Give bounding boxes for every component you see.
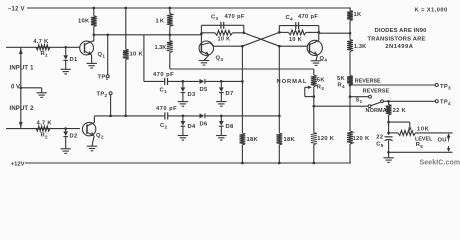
wire Q4 collector lead (317, 39, 320, 42)
node input2 arrow (19, 122, 23, 128)
resistor R5 10K (398, 130, 416, 135)
node K=X1000 note (415, 8, 448, 14)
svg-text:TP1: TP1 (98, 74, 109, 81)
wire 10K-2 lower (125, 59, 127, 116)
svg-text:TRANSISTORS ARE: TRANSISTORS ARE (368, 37, 426, 43)
transistor Q4 (307, 40, 322, 55)
svg-text:120 K: 120 K (317, 136, 334, 142)
wire upper chain mid2 (205, 80, 242, 82)
wire column1 (241, 46, 243, 133)
svg-text:D3: D3 (188, 92, 196, 98)
node input1 arrow (19, 48, 23, 54)
wire R3 bottom (312, 87, 315, 107)
svg-text:NORMAL: NORMAL (277, 79, 308, 85)
svg-text:D7: D7 (226, 91, 234, 97)
resistor 18K-1 (240, 133, 246, 145)
junction ff right stub (242, 31, 245, 34)
wire C1 riser (143, 35, 145, 82)
svg-text:R2: R2 (41, 133, 49, 140)
wire 0V to ground (21, 88, 42, 93)
wire column2 bottom (278, 145, 280, 163)
svg-text:1.3K: 1.3K (354, 44, 366, 50)
resistor 120K-1 (311, 133, 317, 145)
capacitor C5 (385, 137, 393, 141)
wire input bus vertical (20, 47, 22, 128)
wire to normal contact (314, 105, 368, 107)
wire column1 bottom (241, 145, 243, 163)
node 1.3K-right label (354, 44, 366, 50)
wire Q4 collector to 1K (319, 32, 350, 34)
transistor Q2 (82, 122, 95, 136)
node NORMAL label switch (366, 108, 391, 114)
wire TP4 wire (389, 100, 436, 102)
wire 10K-1 top lead (93, 8, 95, 16)
wire Q2 emitter (92, 136, 94, 146)
junction D3 tap (182, 80, 185, 83)
node 22 label C5 (376, 135, 383, 141)
node 0V label (11, 85, 20, 91)
resistor R3 5K (311, 75, 317, 87)
svg-text:Q3: Q3 (216, 56, 224, 63)
wire TP1 drop (107, 35, 109, 75)
resistor 22K (386, 105, 392, 115)
svg-text:470 pF: 470 pF (153, 72, 174, 78)
diode D5 (200, 79, 205, 84)
junction D7 tap (220, 80, 223, 83)
svg-text:R1: R1 (41, 51, 49, 58)
diode D4 (181, 121, 186, 126)
junction ff left stub (200, 32, 203, 35)
node Q2 label (96, 133, 104, 140)
ground Q1 emitter (87, 63, 97, 68)
wire 120K-2 bottom (350, 144, 351, 163)
svg-text:OUT: OUT (438, 138, 451, 144)
node R5 label (416, 142, 424, 149)
resistor 1.3K right (347, 40, 353, 52)
junction D8 tap (220, 115, 223, 118)
wire R3 riser (313, 69, 315, 75)
wire 1.3K to R4 (349, 52, 351, 76)
junction TP2 drop (109, 115, 112, 118)
svg-text:4.7 K: 4.7 K (33, 39, 49, 45)
capacitor C4 (296, 22, 299, 29)
wire D8 lead (220, 116, 222, 121)
junction Q1 collector node (92, 33, 95, 36)
node out arrow bottom (447, 146, 450, 152)
node TP2 terminal (109, 92, 112, 95)
svg-text:C1: C1 (160, 88, 168, 95)
svg-text:Q4: Q4 (320, 56, 328, 63)
svg-text:470 pF: 470 pF (225, 14, 245, 20)
wire 1K-1.3K join (169, 26, 171, 40)
node OUT label (438, 138, 451, 144)
wire 22K bottom lead (388, 115, 390, 122)
svg-text:22: 22 (376, 135, 383, 141)
node 5K label R3 (317, 77, 326, 83)
svg-text:TP2: TP2 (97, 92, 108, 99)
node TP1 label (98, 74, 109, 81)
svg-text:4.7 K: 4.7 K (37, 121, 53, 127)
node out arrow top (447, 133, 450, 139)
node D7 label (226, 91, 234, 97)
wire D1 lead (65, 47, 67, 55)
ground C5 (383, 158, 393, 163)
wire top rail -12V (27, 7, 351, 9)
node 1K-right label (354, 12, 363, 18)
ground Q3 emitter (199, 61, 209, 66)
wire 22K to C5 (388, 122, 390, 135)
svg-text:C4: C4 (286, 15, 294, 22)
junction 10K-2 lower chain (124, 115, 127, 118)
wire D4 ground lead (182, 126, 184, 135)
svg-text:S1: S1 (356, 97, 363, 104)
diode D8 (219, 121, 224, 126)
svg-text:R5: R5 (416, 142, 424, 149)
resistor 120K-2 (347, 131, 353, 144)
wire Q4 emitter (316, 55, 317, 61)
svg-text:22 K: 22 K (393, 108, 407, 114)
svg-text:D4: D4 (188, 124, 196, 130)
node 10K-ff-left label (218, 37, 231, 43)
wire upper chain mid1 (168, 80, 200, 82)
wire pole to junction (383, 100, 388, 102)
node reverse contact (369, 95, 372, 98)
svg-text:5K: 5K (317, 77, 326, 83)
svg-text:10 K: 10 K (289, 37, 302, 43)
svg-text:DIODES ARE IN90: DIODES ARE IN90 (375, 28, 427, 34)
node 1.3K-left label (155, 45, 167, 51)
node switch pole (381, 100, 384, 103)
svg-text:18K: 18K (247, 137, 259, 143)
svg-text:Q1: Q1 (98, 52, 106, 59)
resistor R4 5K (347, 76, 353, 85)
node 470pF label C1 (153, 72, 174, 78)
wire rail right corner (349, 8, 351, 11)
ground D8 (216, 136, 226, 141)
wire R5 right lead (416, 132, 453, 134)
ground D2 (61, 149, 71, 154)
resistor 10K ff right (289, 30, 307, 35)
wire D2 lead (65, 129, 67, 132)
resistor 10K ff left (215, 30, 233, 35)
junction 120K-1 rail (312, 162, 315, 165)
node D6 label (200, 121, 208, 127)
ground D3 (178, 102, 188, 107)
wire upper chain left (144, 80, 165, 82)
svg-text:C5: C5 (376, 141, 384, 148)
wire C5 ground lead (388, 152, 390, 158)
node 120K-2 label (353, 136, 370, 142)
resistor 10K-1 (91, 16, 97, 27)
wire 10K-ff-left wire (201, 32, 243, 34)
svg-text:R3: R3 (317, 85, 325, 92)
svg-text:470 pF: 470 pF (156, 106, 177, 112)
node R1 label (41, 51, 49, 58)
wire C3 top (201, 24, 243, 26)
wire to reverse contact (350, 96, 369, 98)
junction column1 top (241, 45, 244, 48)
wire out bottom (389, 151, 453, 153)
capacitor C1 (165, 78, 168, 85)
wire lower chain mid1 (168, 115, 200, 117)
node 5K label R4 (337, 76, 346, 82)
wire ff right-left stub (278, 26, 280, 33)
svg-text:REVERSE: REVERSE (363, 88, 390, 94)
wire reverse node down (349, 97, 351, 131)
wire lower chain left (94, 115, 164, 117)
node Q4 label (320, 56, 328, 63)
wire TP3 wire (350, 84, 435, 86)
wire Q1 collector bus (94, 34, 202, 36)
svg-text:C2: C2 (160, 123, 168, 130)
junction normal node (312, 105, 315, 108)
wire R5 left lead (389, 132, 398, 134)
svg-text:INPUT 1: INPUT 1 (10, 66, 35, 72)
wire Q3 collector (210, 43, 242, 47)
svg-text:18K: 18K (284, 137, 296, 143)
junction upper chain column1 (241, 80, 244, 83)
wire ff left stub (200, 25, 202, 44)
junction 1K 1.3K right (349, 32, 352, 35)
resistor 18K-2 (276, 133, 282, 145)
node normal contact (368, 105, 371, 108)
node TP1 terminal (106, 75, 109, 78)
wire C5 bottom (388, 140, 390, 152)
node D3 label (188, 92, 196, 98)
wire 10K-1 bottom lead (93, 27, 95, 35)
junction column1 rail (241, 162, 244, 165)
svg-text:REVERSE: REVERSE (355, 79, 381, 85)
ground 0V (37, 93, 47, 98)
node -12V label (8, 6, 25, 12)
svg-text:10K: 10K (417, 126, 430, 132)
node 18K-2 label (284, 137, 296, 143)
junction TP1 drop (106, 33, 109, 36)
wire D4 lead (182, 116, 184, 121)
wire column2 (278, 46, 280, 133)
svg-text:10K: 10K (78, 19, 90, 25)
svg-text:D2: D2 (70, 133, 78, 139)
junction D2 wire (64, 127, 67, 130)
node 470pF label C4 (298, 14, 318, 20)
node NORMAL label R3 (277, 79, 308, 85)
capacitor C3 (221, 22, 224, 29)
svg-text:TP3: TP3 (440, 84, 451, 91)
svg-text:TP4: TP4 (440, 100, 451, 107)
wire D8 ground lead (220, 126, 222, 135)
resistor 1K right (347, 11, 353, 21)
ground Q2 emitter (87, 146, 97, 151)
junction Q4 collector node (317, 31, 320, 34)
wire input1 stub (6, 46, 80, 48)
svg-text:0 V: 0 V (11, 85, 20, 91)
node TP3 label (440, 84, 451, 91)
svg-text:–12 V: –12 V (8, 6, 25, 12)
node 4.7K label R2 (37, 121, 53, 127)
node 470pF label C2 (156, 106, 177, 112)
node TP4 terminal (435, 100, 438, 103)
wire 1K-left top lead (169, 8, 171, 14)
svg-text:D5: D5 (200, 87, 208, 93)
junction column2 rail (278, 162, 281, 165)
node D1 label (70, 57, 78, 63)
junction 0V bus (19, 86, 22, 89)
ground D1 (61, 69, 71, 74)
wire 120K-1 bottom (313, 145, 315, 164)
resistor R2 4.7K (36, 126, 50, 131)
wire D3 lead (182, 81, 184, 87)
node 10K-ff-right label (289, 37, 302, 43)
node TP4 label (440, 100, 451, 107)
node R4 label (338, 82, 346, 89)
wire Q1 collector (92, 35, 94, 41)
svg-text:1K: 1K (354, 12, 363, 18)
node INPUT 1 label (10, 66, 35, 72)
wire C4 top (279, 25, 319, 27)
node 10K-2 label (130, 51, 144, 57)
wire input2 stub (6, 128, 80, 130)
wire R5 wiper (389, 122, 412, 131)
junction lower chain column2 (278, 115, 281, 118)
wire bottom rail +12V (25, 162, 351, 164)
node Q3 label (216, 56, 224, 63)
diode D7 (219, 87, 224, 92)
svg-text:120 K: 120 K (353, 136, 370, 142)
junction 1K 1.3K left (168, 33, 171, 36)
node S1 label (356, 97, 363, 104)
diode D2 (63, 131, 68, 136)
wire Q3 emitter (204, 55, 209, 61)
junction C5 ground node (387, 151, 390, 154)
wire switch arm (371, 102, 381, 106)
svg-text:5K: 5K (337, 76, 346, 82)
node C2 label (160, 123, 168, 130)
resistor 10K-2 (123, 49, 129, 59)
svg-text:SeekIC.com: SeekIC.com (420, 159, 460, 166)
ground D7 (216, 102, 226, 107)
wire 22K top lead (388, 101, 390, 104)
wire D7 lead (220, 81, 222, 87)
node LEVEL label (415, 136, 433, 142)
svg-text:Q2: Q2 (96, 133, 104, 140)
svg-text:2N1499A: 2N1499A (385, 44, 414, 50)
resistor 1K left (167, 14, 173, 27)
svg-text:K = X1,000: K = X1,000 (415, 8, 448, 14)
wire D3 ground lead (182, 93, 184, 102)
transistor Q1 (80, 41, 94, 55)
node REVERSE label top (355, 79, 381, 85)
svg-text:C3: C3 (211, 15, 219, 22)
node 18K-1 label (247, 137, 259, 143)
svg-text:+12V: +12V (11, 161, 25, 167)
junction R5 wire node (387, 132, 390, 135)
junction column2 top (278, 45, 281, 48)
node watermark (420, 159, 460, 166)
junction wiper node (387, 121, 390, 124)
wire D2 ground lead (65, 137, 67, 149)
wire Q1 emitter (91, 55, 93, 63)
node C5 label (376, 141, 384, 148)
node REVERSE label 2 (363, 88, 390, 94)
node diodes note (375, 28, 427, 34)
node 10K label R5 (417, 126, 430, 132)
diode D3 (181, 87, 186, 92)
wire normal node down (313, 106, 315, 132)
ground Q4 emitter (311, 61, 321, 66)
wire R3 wiper box (305, 86, 314, 97)
node 10K-1 label (78, 19, 90, 25)
node +12V label (11, 161, 25, 167)
wire lower chain mid2 (205, 115, 279, 117)
wire 1K-right lower (349, 21, 351, 40)
wire ff right-right stub (318, 26, 320, 41)
resistor 1.3K left (167, 41, 173, 53)
node 2N1499A note (385, 44, 414, 50)
junction rail 10K-1 (92, 7, 95, 10)
svg-text:1.3K: 1.3K (155, 45, 167, 51)
wire ff right stub (243, 25, 245, 33)
node transistors note (368, 37, 426, 43)
node INPUT 2 label (10, 106, 35, 112)
junction ff right-left stub (278, 31, 281, 34)
wire diagonal B (244, 33, 279, 46)
node 4.7K label R1 (33, 39, 49, 45)
ground D4 (178, 136, 188, 141)
wire TP2 drop (110, 95, 112, 116)
node C3 label (211, 15, 219, 22)
resistor R1 4.7K (36, 45, 50, 50)
svg-text:D6: D6 (200, 121, 208, 127)
junction TP4 node (387, 100, 390, 103)
node D5 label (200, 87, 208, 93)
capacitor C2 (165, 112, 168, 119)
node D8 label (226, 124, 234, 130)
svg-text:1K: 1K (156, 19, 166, 25)
node D4 label (188, 124, 196, 130)
wire 10K-2 upper (125, 8, 127, 49)
node C4 label (286, 15, 294, 22)
wire Q2 collector corner (93, 116, 95, 123)
svg-text:D8: D8 (226, 124, 234, 130)
junction rail 1K left (168, 7, 171, 10)
junction D4 tap (182, 115, 185, 118)
svg-text:INPUT 2: INPUT 2 (10, 106, 35, 112)
node Q1 label (98, 52, 106, 59)
junction D1 wire (64, 46, 67, 49)
junction reverse node (349, 95, 352, 98)
wire 1.3K-left corner (170, 53, 314, 70)
node 470pF label C3 (225, 14, 245, 20)
wire D7 ground lead (220, 93, 222, 102)
node 22K label (393, 108, 407, 114)
svg-text:10 K: 10 K (218, 37, 231, 43)
wire R4 down (349, 85, 351, 97)
diode D1 (63, 55, 68, 60)
junction rail 10K-2 (124, 7, 127, 10)
node R3 label (317, 85, 325, 92)
svg-text:10 K: 10 K (130, 51, 144, 57)
svg-text:470 pF: 470 pF (298, 14, 318, 20)
node 120K-1 label (317, 136, 334, 142)
wire diagonal A (242, 32, 279, 46)
node 1K-left label (156, 19, 166, 25)
node R2 label (41, 133, 49, 140)
junction R4 bottom (349, 84, 352, 87)
node TP3 terminal (435, 84, 438, 87)
wire 10K-ff-right wire (279, 31, 319, 33)
svg-text:R4: R4 (338, 82, 346, 89)
svg-text:D1: D1 (70, 57, 78, 63)
